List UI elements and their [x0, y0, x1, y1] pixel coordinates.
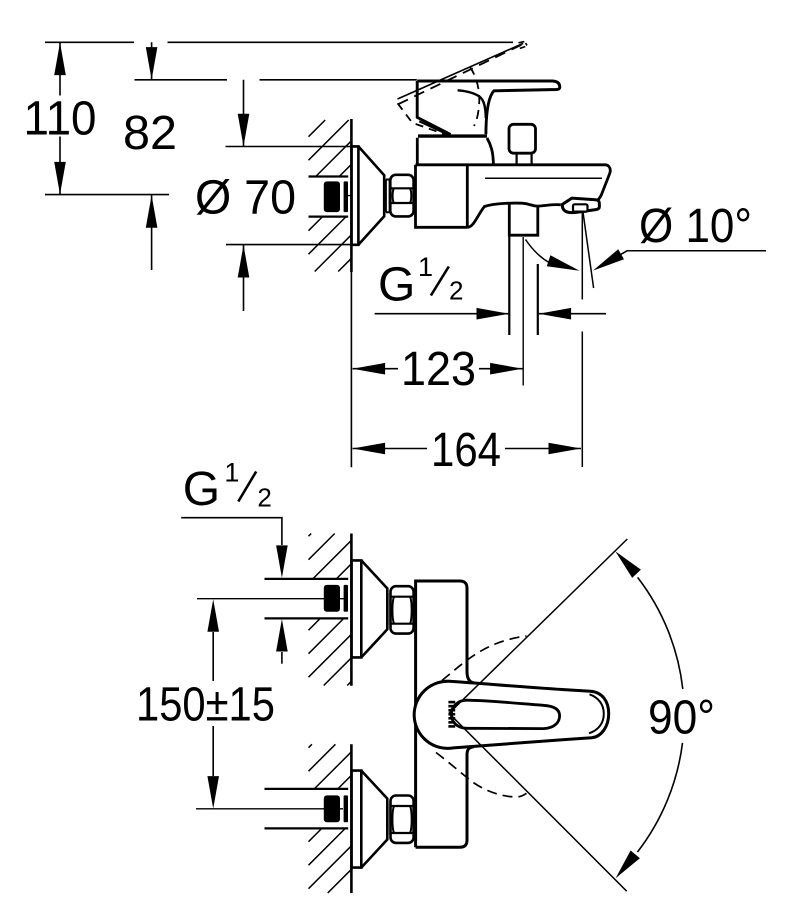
- raised lever tip (dashed): [519, 42, 528, 49]
- supply pipe channel in wall: [309, 177, 349, 217]
- escutcheon (side view): [352, 146, 385, 244]
- lower union nut: [391, 796, 414, 843]
- 90deg arc: [638, 577, 683, 852]
- lower pipe centreline: [196, 808, 343, 810]
- wall face line: [350, 119, 353, 272]
- svg-text:G: G: [378, 258, 415, 311]
- svg-text:1: 1: [418, 252, 433, 282]
- svg-text:1: 1: [224, 458, 239, 488]
- svg-text:90°: 90°: [648, 692, 715, 745]
- reference line L5 (escutcheon bottom): [226, 244, 351, 246]
- swivel chord line upper: [449, 539, 627, 713]
- lever crease: [458, 90, 486, 118]
- svg-text:123: 123: [401, 343, 476, 396]
- dia10 leader line: [621, 251, 766, 255]
- reference line L4 (escutcheon top): [226, 146, 359, 148]
- svg-text:Ø 10°: Ø 10°: [639, 200, 752, 253]
- lever end cap inner line: [589, 694, 604, 733]
- svg-text:150±15: 150±15: [136, 678, 275, 731]
- dimension 123: [353, 368, 523, 370]
- lever (closed position): [417, 81, 560, 134]
- shadow joint under lever: [418, 134, 487, 137]
- reference line L2 (top of lever): [135, 79, 417, 81]
- wall hatching (bottom figure): [309, 534, 352, 894]
- cartridge housing: [417, 138, 493, 165]
- lever top face line: [451, 700, 559, 728]
- wall face line: [350, 534, 353, 894]
- washer: [386, 180, 390, 213]
- svg-text:164: 164: [431, 424, 501, 477]
- lower supply pipe (black): [324, 795, 340, 822]
- svg-text:Ø 70: Ø 70: [195, 172, 296, 225]
- lower pipe channel: [265, 789, 349, 829]
- reference line L3 (pipe centre): [45, 194, 169, 196]
- stream reference line (vertical): [581, 212, 583, 467]
- raised lever neck (dashed): [470, 67, 480, 126]
- supply pipe (black): [324, 181, 340, 212]
- raised lever lower edge: [398, 43, 524, 99]
- diverter knob: [509, 124, 536, 153]
- G1/2 dimension line: [375, 313, 606, 315]
- reference line L1 (top of raised lever): [45, 41, 513, 43]
- phantom lever position lower (dashed): [436, 753, 527, 797]
- phantom lever position upper (dashed): [442, 636, 527, 681]
- upper pipe centreline: [197, 598, 344, 600]
- wall hatching (top figure): [309, 120, 352, 272]
- body rear block: [416, 165, 468, 228]
- raised lever nose (dashed): [398, 103, 447, 135]
- G1/2 leader: [181, 518, 282, 545]
- dimension 150+-15: [212, 632, 214, 776]
- aerator: [573, 204, 588, 211]
- svg-text:110: 110: [24, 93, 97, 146]
- lever (plan view): [414, 681, 609, 748]
- spout end cap: [562, 198, 599, 213]
- upper pipe channel: [265, 579, 349, 619]
- svg-text:2: 2: [449, 276, 463, 306]
- lower washer: [388, 804, 391, 835]
- union nut: [390, 175, 413, 217]
- shower outlet block: [509, 204, 538, 235]
- lower escutcheon (plan): [352, 771, 388, 868]
- body top edge and right end: [416, 165, 611, 201]
- upper washer: [388, 594, 391, 625]
- body internal line: [485, 177, 602, 179]
- upper union nut: [391, 586, 414, 633]
- extension line for 123/164 (wall face continued): [350, 272, 352, 467]
- dimension 164: [353, 448, 581, 450]
- body underside: [467, 203, 561, 227]
- curved angle leader: [526, 240, 550, 263]
- grip marks: [448, 701, 455, 728]
- svg-text:2: 2: [257, 482, 271, 512]
- stream line tilted 10deg: [583, 212, 594, 289]
- dimension 82 arrows: [151, 42, 153, 270]
- svg-text:G: G: [183, 463, 220, 516]
- svg-text:82: 82: [123, 107, 177, 160]
- dimension dia70 arrows: [243, 80, 245, 311]
- upper supply pipe (black): [324, 585, 340, 612]
- dimension 110 line: [59, 43, 61, 195]
- pipe centre tick: [345, 195, 363, 197]
- shower pipe centreline: [522, 237, 524, 386]
- faucet body (plan): [416, 581, 474, 847]
- shower pipe: [509, 235, 538, 335]
- upper escutcheon (plan): [352, 560, 388, 657]
- raised lever upper edge (dashed): [398, 44, 524, 105]
- swivel chord line lower: [449, 713, 627, 891]
